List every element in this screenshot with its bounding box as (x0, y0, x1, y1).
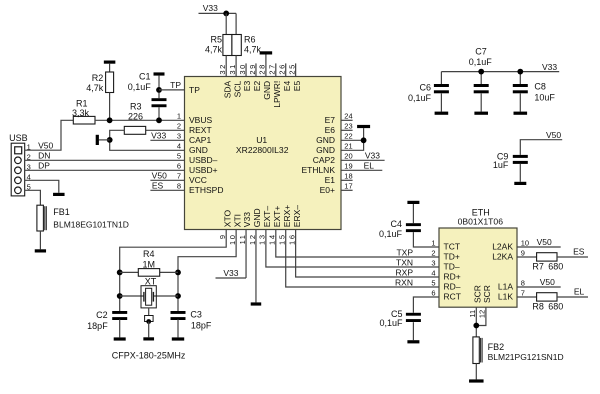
svg-text:3: 3 (431, 258, 435, 267)
svg-text:TP: TP (170, 80, 181, 90)
svg-text:4: 4 (177, 142, 181, 151)
svg-text:RD–: RD– (444, 282, 461, 292)
svg-text:C4: C4 (390, 219, 402, 229)
svg-text:1: 1 (177, 112, 181, 121)
svg-text:9: 9 (521, 248, 525, 257)
svg-text:V33: V33 (542, 62, 557, 72)
svg-text:V33: V33 (203, 3, 218, 13)
svg-text:EL: EL (364, 161, 375, 171)
svg-text:19: 19 (344, 162, 352, 171)
svg-text:EXT+: EXT+ (272, 206, 282, 228)
svg-text:FB2: FB2 (488, 342, 505, 352)
svg-text:0,1uF: 0,1uF (408, 93, 432, 103)
svg-text:FB1: FB1 (53, 207, 70, 217)
svg-text:8: 8 (521, 278, 525, 287)
svg-text:680: 680 (548, 302, 563, 312)
svg-text:18pF: 18pF (87, 321, 108, 331)
svg-text:V50: V50 (540, 277, 555, 287)
svg-text:C6: C6 (419, 83, 431, 93)
svg-text:1uF: 1uF (493, 160, 509, 170)
svg-text:U1: U1 (256, 135, 267, 145)
svg-text:24: 24 (344, 112, 352, 121)
svg-text:R8: R8 (532, 302, 544, 312)
svg-text:SCR: SCR (473, 285, 483, 303)
svg-text:C3: C3 (190, 309, 202, 319)
svg-text:CAP2: CAP2 (313, 155, 335, 165)
svg-text:E7: E7 (325, 115, 336, 125)
svg-text:21: 21 (344, 142, 352, 151)
svg-text:3: 3 (177, 132, 181, 141)
svg-text:0B01X1T06: 0B01X1T06 (458, 216, 504, 226)
svg-text:CFPX-180-25MHz: CFPX-180-25MHz (112, 351, 186, 361)
svg-text:ES: ES (573, 246, 585, 256)
svg-text:ERX+: ERX+ (282, 205, 292, 227)
svg-text:VCC: VCC (189, 175, 207, 185)
svg-text:C7: C7 (475, 47, 487, 57)
svg-text:1M: 1M (143, 259, 156, 269)
svg-text:0,1uF: 0,1uF (379, 318, 403, 328)
svg-text:R5: R5 (210, 35, 222, 45)
svg-text:R7: R7 (532, 262, 544, 272)
svg-text:L2KA: L2KA (492, 252, 513, 262)
svg-text:USB: USB (9, 133, 28, 143)
svg-text:RXN: RXN (395, 277, 413, 287)
svg-text:8: 8 (177, 182, 181, 191)
svg-text:GND: GND (262, 81, 272, 100)
svg-text:E2: E2 (252, 81, 262, 92)
svg-text:ETHSPD: ETHSPD (189, 185, 223, 195)
svg-text:V33: V33 (242, 212, 252, 227)
svg-text:0,1uF: 0,1uF (469, 57, 493, 67)
svg-text:XR22800IL32: XR22800IL32 (236, 145, 289, 155)
svg-text:4,7k: 4,7k (244, 45, 262, 55)
svg-text:2: 2 (177, 122, 181, 131)
svg-text:L2AK: L2AK (492, 242, 513, 252)
svg-text:C8: C8 (534, 82, 546, 92)
svg-text:6: 6 (431, 288, 435, 297)
svg-text:RD+: RD+ (444, 272, 461, 282)
svg-text:TD–: TD– (444, 262, 460, 272)
svg-text:E5: E5 (292, 81, 302, 92)
svg-text:R4: R4 (143, 249, 155, 259)
svg-text:VBUS: VBUS (189, 115, 212, 125)
svg-text:E1: E1 (325, 175, 336, 185)
svg-text:1: 1 (431, 238, 435, 247)
svg-text:V33: V33 (223, 268, 238, 278)
svg-text:XT: XT (145, 276, 157, 286)
svg-text:GND: GND (189, 145, 208, 155)
svg-text:2: 2 (431, 248, 435, 257)
svg-text:E6: E6 (325, 125, 336, 135)
svg-text:TXN: TXN (396, 257, 413, 267)
svg-text:23: 23 (344, 122, 352, 131)
svg-text:R1: R1 (76, 98, 88, 108)
svg-text:REXT: REXT (189, 125, 212, 135)
svg-text:0,1uF: 0,1uF (379, 229, 403, 239)
svg-text:E0+: E0+ (320, 185, 335, 195)
svg-text:TP: TP (189, 85, 200, 95)
svg-text:V33: V33 (151, 131, 166, 141)
svg-text:5: 5 (177, 152, 181, 161)
svg-text:C1: C1 (139, 71, 151, 81)
svg-text:SCL: SCL (232, 81, 242, 98)
svg-text:10uF: 10uF (534, 92, 555, 102)
svg-text:V50: V50 (152, 171, 167, 181)
svg-text:4,7k: 4,7k (205, 45, 223, 55)
svg-text:EL: EL (574, 286, 585, 296)
svg-text:7: 7 (177, 172, 181, 181)
svg-text:0,1uF: 0,1uF (128, 82, 152, 92)
svg-text:EXT–: EXT– (262, 206, 272, 228)
svg-text:18: 18 (344, 172, 352, 181)
svg-text:6: 6 (177, 162, 181, 171)
svg-text:SCR: SCR (482, 285, 492, 303)
svg-text:V50: V50 (38, 141, 53, 151)
svg-text:4,7k: 4,7k (86, 83, 104, 93)
svg-text:BLM21PG121SN1D: BLM21PG121SN1D (488, 352, 564, 362)
svg-text:R2: R2 (92, 73, 104, 83)
svg-text:5: 5 (431, 278, 435, 287)
svg-text:20: 20 (344, 152, 352, 161)
svg-text:7: 7 (521, 288, 525, 297)
svg-text:USBD+: USBD+ (189, 165, 218, 175)
svg-text:SDA: SDA (222, 80, 232, 98)
svg-text:BLM18EG101TN1D: BLM18EG101TN1D (53, 220, 129, 230)
svg-text:ETHLNK: ETHLNK (301, 165, 335, 175)
svg-text:DN: DN (38, 151, 50, 161)
svg-text:22: 22 (344, 132, 352, 141)
svg-text:DP: DP (38, 161, 50, 171)
svg-text:RCT: RCT (444, 292, 461, 302)
svg-text:XTI: XTI (232, 214, 242, 227)
svg-text:LPWR!: LPWR! (272, 81, 282, 108)
svg-text:ERX–: ERX– (292, 205, 302, 227)
svg-text:R6: R6 (244, 35, 256, 45)
svg-text:4: 4 (431, 268, 435, 277)
svg-text:3,3k: 3,3k (72, 108, 90, 118)
svg-text:RXP: RXP (396, 267, 414, 277)
svg-text:10: 10 (521, 238, 529, 247)
svg-text:680: 680 (548, 262, 563, 272)
svg-text:V50: V50 (537, 237, 552, 247)
svg-text:GND: GND (252, 208, 262, 227)
svg-text:L1A: L1A (498, 282, 513, 292)
svg-text:TCT: TCT (444, 242, 461, 252)
svg-text:18pF: 18pF (191, 320, 212, 330)
svg-text:E3: E3 (242, 81, 252, 92)
svg-text:V50: V50 (546, 130, 561, 140)
svg-text:L1K: L1K (498, 292, 513, 302)
svg-text:GND: GND (316, 145, 335, 155)
svg-text:TD+: TD+ (444, 252, 460, 262)
svg-text:USBD–: USBD– (189, 155, 218, 165)
svg-text:TXP: TXP (396, 247, 413, 257)
svg-text:C2: C2 (96, 310, 108, 320)
svg-text:226: 226 (128, 111, 143, 121)
svg-text:R3: R3 (130, 101, 142, 111)
svg-text:17: 17 (344, 182, 352, 191)
svg-text:ES: ES (152, 181, 164, 191)
svg-text:E4: E4 (282, 81, 292, 92)
svg-text:XTO: XTO (222, 209, 232, 227)
svg-text:GND: GND (316, 135, 335, 145)
svg-text:CAP1: CAP1 (189, 135, 211, 145)
svg-text:V33: V33 (365, 151, 380, 161)
